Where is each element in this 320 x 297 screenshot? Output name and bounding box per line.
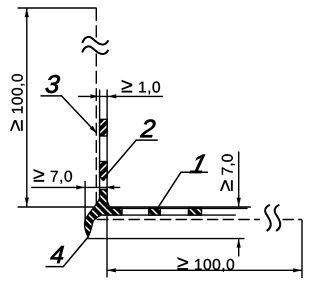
part number 2	[140, 120, 156, 138]
part number 3	[45, 75, 60, 93]
inner corner fillet	[107, 199, 111, 208]
label dim 7,0 left	[34, 169, 72, 183]
extension line bottom tangent	[87, 238, 245, 240]
horizontal leg bottom face	[103, 214, 236, 216]
sheet right face (vertical leg inner)	[106, 90, 108, 200]
centerline horizontal dashed	[97, 219, 260, 221]
hatched patch part1 on horizontal leg	[149, 208, 161, 215]
leader dot part 2	[101, 177, 105, 181]
extension line far right	[301, 220, 303, 279]
label dim 100 left rotated	[10, 74, 24, 131]
arrow left dim7,0 left	[106, 185, 115, 189]
label dim 7,0 right rotated	[220, 154, 234, 191]
arrow right dim100 bottom	[293, 268, 302, 272]
part number 1	[190, 155, 207, 173]
hatched patch part3 upper on vertical leg	[100, 119, 108, 136]
arrow right dim7,0 left	[76, 185, 85, 189]
dimension line 1,0	[78, 95, 163, 97]
extension line right face extended down	[106, 216, 108, 278]
leader shelf for part 4	[46, 237, 89, 267]
leader shelf for part 1	[156, 172, 208, 210]
dimension line 7,0 right upper segment	[238, 152, 240, 207]
hatched patch lower on vertical leg	[100, 162, 108, 178]
sheet left face (vertical leg outer)	[99, 90, 101, 199]
dimension line 7,0 right lower segment	[238, 239, 240, 257]
arrow up dim7,0 right	[237, 239, 241, 248]
extension line long horizontal (top face extended)	[18, 206, 251, 208]
leader arrowhead part 3	[90, 126, 97, 133]
leader shelf for part 2	[103, 140, 158, 179]
leader dot part 1	[154, 209, 158, 213]
dimension line 7,0 left	[31, 186, 120, 188]
leader shelf for part 3	[41, 96, 97, 133]
label dim 100 bottom	[178, 257, 235, 271]
hatched patch right on horizontal leg	[188, 208, 201, 215]
arrow right dim1,0	[90, 94, 99, 98]
break wave right 2	[275, 205, 281, 231]
arrow down dim7,0 right	[237, 198, 241, 207]
horizontal leg top face	[111, 207, 248, 209]
arrow left dim1,0	[108, 94, 117, 98]
corner part 4 hatched band	[85, 190, 122, 237]
arrow up dim100 left	[25, 8, 29, 17]
break wave top 2	[82, 46, 108, 54]
centerline vertical dashed	[95, 8, 97, 38]
break wave top 1	[82, 37, 108, 45]
part number 4	[50, 246, 64, 263]
break wave right 1	[265, 205, 271, 231]
arrow left dim100 bottom	[107, 268, 116, 272]
extension line 7,0 left	[84, 181, 86, 227]
dimension line 100 left vertical	[26, 8, 28, 207]
arrow down dim100 left	[25, 198, 29, 207]
extension line top	[18, 7, 97, 9]
dimension line 100 bottom	[107, 269, 302, 271]
label dim 1,0	[122, 80, 160, 94]
